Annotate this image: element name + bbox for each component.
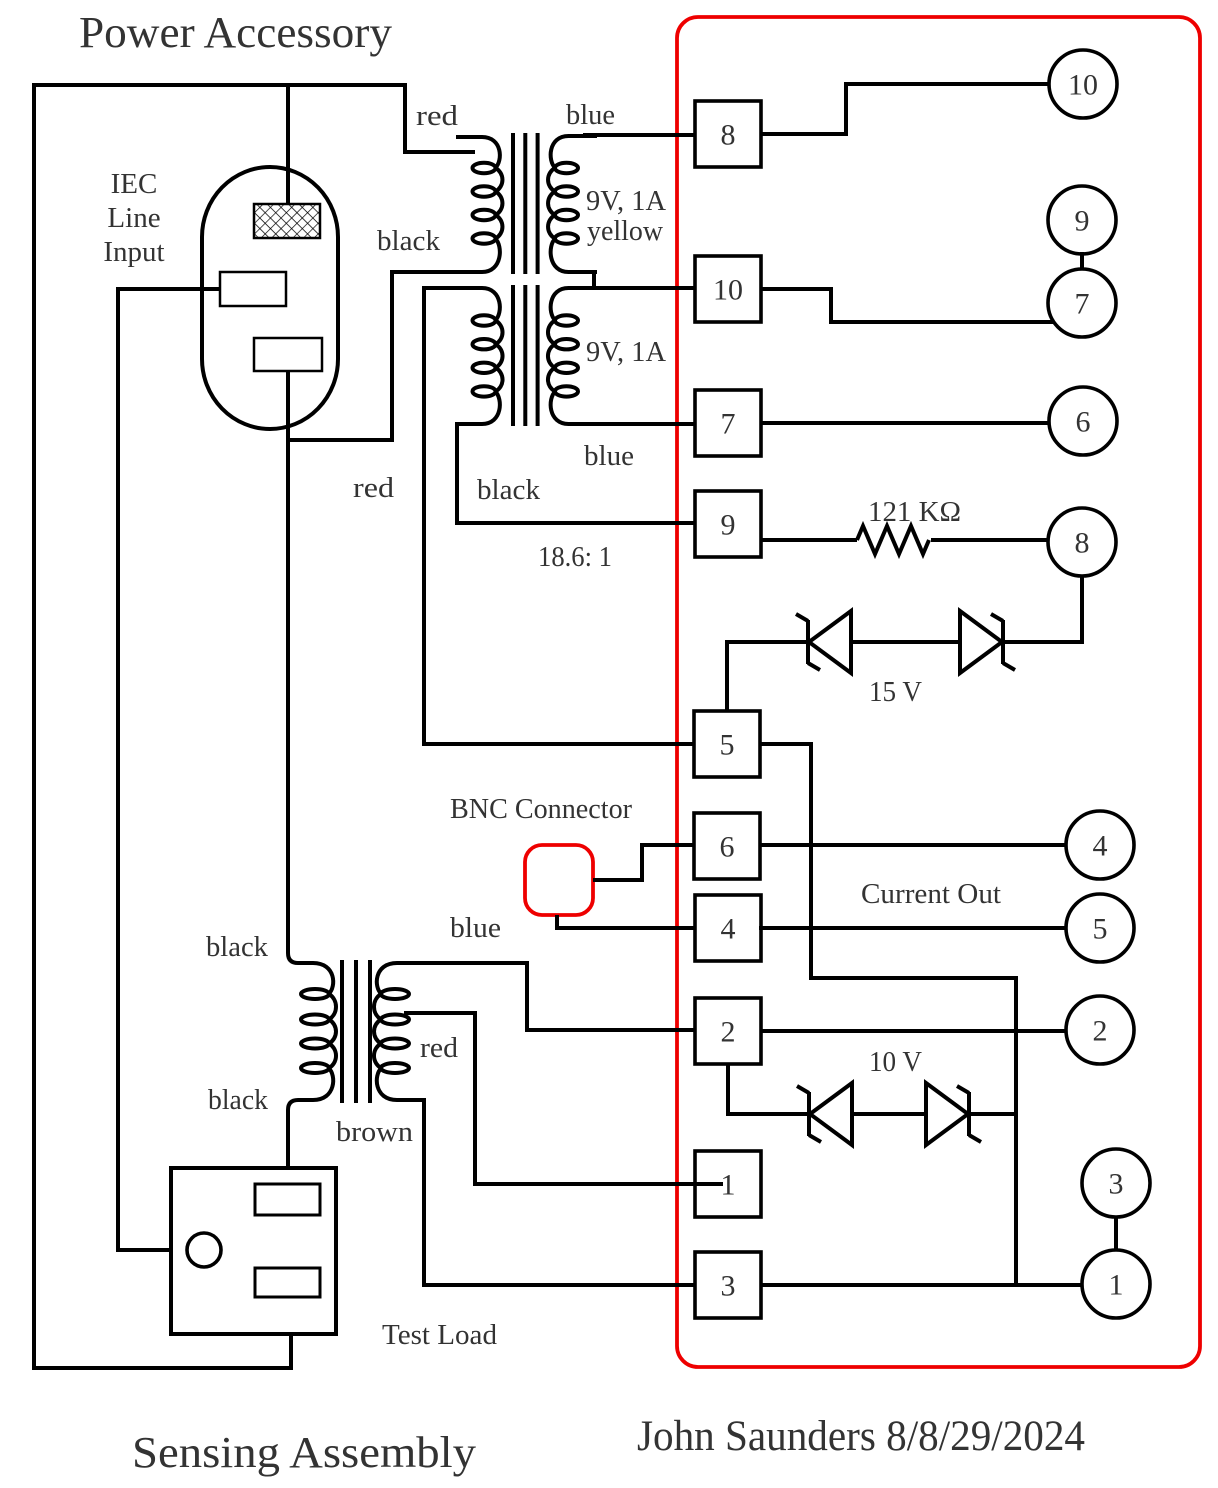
IEC line input connector body: [202, 167, 338, 429]
svg-text:5: 5: [720, 729, 735, 762]
zener D1 15V left: [796, 611, 851, 673]
IEC hot pin: [254, 338, 322, 371]
wire T3 primary to test load: [288, 1100, 302, 1186]
transformer T1 core: [513, 133, 538, 274]
svg-text:8: 8: [1075, 527, 1090, 560]
label IEC Line Input: [103, 168, 164, 268]
wire T1 primary black return: [288, 272, 458, 440]
wire terminal 4 to ring 5: [759, 926, 1067, 930]
svg-text:4: 4: [1093, 830, 1108, 863]
ring terminal 10: [1049, 50, 1117, 118]
wire T3 secondary brown to terminal 3: [410, 1100, 695, 1285]
label blue T2: [584, 440, 634, 472]
wire terminal 6 to ring 4: [759, 843, 1066, 847]
svg-text:brown: brown: [336, 1116, 414, 1148]
label black T3 top: [206, 931, 268, 963]
title Power Accessory: [79, 8, 392, 57]
wire clamp to terminal 5 top: [727, 642, 806, 711]
svg-text:2: 2: [721, 1016, 736, 1049]
wire terminal 1 stub: [695, 1182, 723, 1186]
svg-text:red: red: [353, 472, 395, 504]
label black T3 bottom: [208, 1084, 268, 1116]
terminal block 2: [695, 998, 761, 1064]
label ratio 18.6:1: [538, 541, 612, 573]
label Test Load: [382, 1319, 497, 1351]
resistor 121 Kohm: [857, 526, 929, 554]
wire terminal 10 to ring 7: [761, 289, 1054, 322]
svg-text:7: 7: [1075, 288, 1090, 321]
svg-text:red: red: [420, 1032, 459, 1064]
svg-text:6: 6: [1076, 406, 1091, 439]
wire terminal 2 to ring 2: [761, 1029, 1066, 1033]
ring terminal 9: [1048, 186, 1116, 254]
wire between 10V zeners: [851, 1112, 924, 1116]
svg-text:10 V: 10 V: [869, 1046, 922, 1078]
label Current Out: [861, 878, 1001, 910]
label yellow: [587, 215, 663, 247]
terminal block 9: [695, 491, 761, 557]
terminal block 7: [695, 390, 761, 456]
label 10 V: [869, 1046, 922, 1078]
zener D3 10V left: [797, 1083, 852, 1145]
svg-text:9V, 1A: 9V, 1A: [586, 185, 666, 217]
wire IEC hot lead: [286, 85, 290, 204]
svg-text:3: 3: [721, 1270, 736, 1303]
terminal block 10: [695, 256, 761, 322]
wire resistor to ring 8: [931, 538, 1048, 542]
wire terminal 7 to ring 6: [761, 421, 1049, 425]
title Sensing Assembly: [132, 1428, 476, 1477]
svg-text:black: black: [208, 1084, 268, 1116]
label red T1 primary: [416, 100, 459, 132]
transformer T1 secondary winding: [548, 136, 597, 272]
svg-text:Power Accessory: Power Accessory: [79, 8, 392, 57]
test load upper prong: [255, 1184, 320, 1215]
wire T3 secondary red tap to terminal 1: [404, 1013, 695, 1184]
wire IEC ground lead / bottom transformer primary feed: [288, 371, 302, 963]
svg-text:Line: Line: [107, 202, 160, 234]
wire terminal 8 to ring 10: [761, 84, 1049, 134]
svg-text:1: 1: [1109, 1269, 1124, 1302]
ring terminal 5: [1066, 894, 1134, 962]
test load body: [171, 1168, 336, 1334]
IEC neutral pin: [220, 272, 286, 306]
transformer T3 primary winding: [301, 963, 336, 1100]
svg-text:black: black: [477, 474, 540, 506]
svg-text:Test Load: Test Load: [382, 1319, 497, 1351]
ring terminal 7: [1048, 269, 1116, 337]
terminal block 8: [695, 101, 761, 167]
transformer T2 secondary winding: [548, 288, 597, 424]
ring terminal 6: [1049, 387, 1117, 455]
wire top line-input feed: [34, 85, 475, 152]
svg-text:5: 5: [1093, 913, 1108, 946]
svg-text:blue: blue: [450, 912, 501, 944]
wire terminal 2 down to clamp: [728, 1064, 809, 1114]
label 9V 1A T1: [586, 185, 666, 217]
wire secondary center to terminal 10: [582, 286, 695, 290]
label 15 V: [869, 676, 922, 708]
title John Saunders: [637, 1413, 1085, 1460]
label red T3: [420, 1032, 459, 1064]
svg-text:black: black: [206, 931, 268, 963]
ring terminal 4: [1066, 811, 1134, 879]
ring terminal 8: [1048, 508, 1116, 576]
svg-text:2: 2: [1093, 1015, 1108, 1048]
svg-text:7: 7: [721, 408, 736, 441]
test load ground pin: [187, 1233, 221, 1267]
wire clamp to bus: [969, 1112, 1016, 1116]
svg-text:BNC Connector: BNC Connector: [450, 793, 632, 825]
svg-text:John Saunders 8/8/29/2024: John Saunders 8/8/29/2024: [637, 1413, 1085, 1460]
wire outer return loop: [34, 83, 291, 1368]
transformer T3 secondary winding: [374, 963, 425, 1100]
label 9V 1A T2: [586, 336, 666, 368]
red terminal-board outline: [677, 17, 1200, 1367]
terminal block 4: [695, 895, 761, 961]
label red T2: [353, 472, 395, 504]
svg-text:3: 3: [1109, 1168, 1124, 1201]
svg-text:Sensing Assembly: Sensing Assembly: [132, 1428, 476, 1477]
label blue BNC: [450, 912, 501, 944]
svg-text:18.6: 1: 18.6: 1: [538, 541, 612, 573]
svg-text:10: 10: [713, 274, 743, 307]
IEC ground pin (hatched): [254, 204, 320, 238]
terminal block 5: [694, 711, 760, 777]
svg-text:Input: Input: [103, 236, 164, 268]
zener D4 10V right: [926, 1083, 981, 1145]
wire T2 primary black to terminal 9: [457, 424, 695, 523]
ring terminal 2: [1066, 996, 1134, 1064]
wire terminal 5 to bus: [759, 744, 1016, 1286]
svg-text:9: 9: [721, 509, 736, 542]
svg-text:121 KΩ: 121 KΩ: [868, 496, 961, 528]
wire IEC neutral lead: [118, 289, 220, 1250]
ring terminal 1: [1082, 1250, 1150, 1318]
terminal block 6: [694, 813, 760, 879]
wire T2 primary red to terminal 5: [424, 288, 695, 744]
terminal block 1: [695, 1151, 761, 1217]
svg-text:Current Out: Current Out: [861, 878, 1001, 910]
wire T3 secondary blue to terminal 2: [410, 963, 695, 1030]
wire terminal 3 to ring 1: [760, 1283, 1083, 1287]
svg-text:black: black: [377, 225, 440, 257]
transformer T3 core: [342, 960, 370, 1103]
wire between 15V zeners: [851, 640, 958, 644]
wire ring 9 to ring 7: [1080, 252, 1084, 270]
svg-text:8: 8: [721, 119, 736, 152]
svg-text:IEC: IEC: [111, 168, 158, 200]
svg-text:blue: blue: [566, 99, 615, 131]
wire BNC shield blue to terminal 4: [557, 915, 695, 928]
svg-text:6: 6: [720, 831, 735, 864]
transformer T1 primary winding: [456, 137, 502, 272]
wire T1/T2 secondary junction: [592, 272, 596, 288]
BNC connector J1: [525, 845, 593, 915]
wire ring 3 to ring 1: [1114, 1216, 1118, 1251]
wire BNC center to terminal 6: [593, 845, 695, 880]
wire ring 8 down to clamp: [1003, 576, 1082, 642]
ring terminal 3: [1082, 1149, 1150, 1217]
label 121 Kohm: [868, 496, 961, 528]
svg-text:15 V: 15 V: [869, 676, 922, 708]
svg-text:yellow: yellow: [587, 215, 663, 247]
test load lower prong: [255, 1268, 320, 1297]
terminal block 3: [695, 1252, 761, 1318]
wire T2 secondary blue to terminal 7: [583, 422, 695, 426]
transformer T2 core: [513, 285, 538, 426]
wire T1 secondary blue to terminal 8: [583, 133, 695, 137]
transformer T2 primary winding: [456, 288, 503, 424]
svg-text:9: 9: [1075, 205, 1090, 238]
label BNC Connector: [450, 793, 632, 825]
svg-text:1: 1: [721, 1169, 736, 1202]
zener D2 15V right: [960, 611, 1015, 673]
svg-text:10: 10: [1068, 69, 1098, 102]
svg-text:9V, 1A: 9V, 1A: [586, 336, 666, 368]
label brown T3: [336, 1116, 414, 1148]
label black T1 primary: [377, 225, 440, 257]
wire terminal 9 to resistor: [761, 538, 857, 542]
svg-text:blue: blue: [584, 440, 634, 472]
svg-text:red: red: [416, 100, 459, 132]
label blue T1 secondary: [566, 99, 615, 131]
svg-text:4: 4: [721, 913, 736, 946]
label black T2: [477, 474, 540, 506]
